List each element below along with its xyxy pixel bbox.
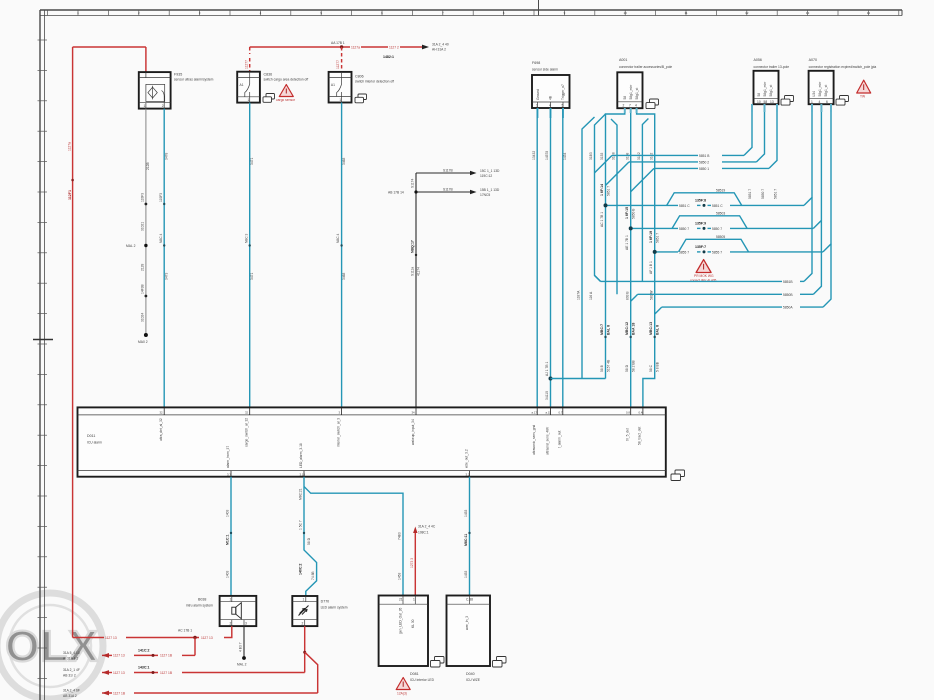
- svg-text:1453: 1453: [464, 509, 468, 517]
- svg-text:AH 31A 2: AH 31A 2: [432, 48, 446, 52]
- svg-text:sensor ultras alarm/system: sensor ultras alarm/system: [174, 78, 214, 82]
- svg-text:3153: 3153: [600, 152, 604, 160]
- warning triangle cargo sensor: [279, 85, 293, 97]
- LED D770 box: [292, 596, 317, 626]
- svg-text:112F1: 112F1: [68, 190, 72, 200]
- svg-text:1482:1: 1482:1: [383, 55, 394, 59]
- node dot J2 left on V630: [629, 226, 633, 230]
- svg-text:1: 1: [413, 598, 415, 602]
- svg-text:17NC5: 17NC5: [480, 193, 490, 197]
- svg-text:trl_5_det: trl_5_det: [626, 428, 630, 441]
- warning triangle near A070: [857, 80, 871, 93]
- svg-text:AC 1 7B 1: AC 1 7B 1: [600, 212, 604, 227]
- horn B038 box: [220, 596, 257, 626]
- connector icon C836: [263, 94, 275, 103]
- svg-text:5855 7: 5855 7: [679, 250, 689, 254]
- svg-text:1: 1: [339, 98, 341, 102]
- svg-text:3: 3: [245, 622, 247, 626]
- svg-text:14F3B: 14F3B: [140, 283, 144, 294]
- svg-text:5850B: 5850B: [783, 293, 793, 297]
- svg-text:2: 2: [623, 103, 625, 107]
- svg-text:3468: 3468: [342, 157, 346, 165]
- wire cyan jumper row J2: [631, 104, 822, 231]
- svg-text:11277: 11277: [244, 60, 248, 69]
- svg-text:BAL 8: BAL 8: [656, 325, 660, 335]
- svg-text:M8C:21: M8C:21: [299, 488, 303, 500]
- connector A056 box: [754, 71, 779, 104]
- svg-text:31A 2_4 6F: 31A 2_4 6F: [63, 689, 80, 693]
- svg-text:0.4: 0.4: [639, 410, 643, 414]
- wire red diagonal branch to row4: [305, 652, 318, 693]
- svg-text:3471: 3471: [250, 272, 254, 280]
- svg-text:MA0 2: MA0 2: [138, 340, 148, 344]
- svg-text:4: 4: [819, 100, 821, 104]
- svg-text:5851 7: 5851 7: [656, 233, 660, 243]
- connector A001 box: [617, 72, 642, 108]
- svg-text:1434: 1434: [563, 152, 567, 160]
- svg-text:ultra_det_al_32: ultra_det_al_32: [159, 418, 163, 441]
- svg-text:74B3: 74B3: [398, 532, 402, 540]
- wire cyan A001 pin4 to V654 and jog to D011 0.4: [637, 108, 655, 415]
- svg-text:1403: 1403: [226, 570, 230, 578]
- svg-text:32: 32: [245, 410, 249, 414]
- svg-text:15C 1_1 13D: 15C 1_1 13D: [480, 169, 500, 173]
- svg-text:10: 10: [624, 11, 628, 15]
- svg-text:ICU WZE: ICU WZE: [466, 678, 481, 682]
- node dot J3 left on V654: [653, 250, 657, 254]
- svg-text:1: 1: [230, 598, 232, 602]
- labels MBC on V605: [604, 336, 606, 338]
- svg-text:MBC:13: MBC:13: [649, 322, 653, 335]
- wire cyan row R161: [606, 104, 765, 185]
- svg-text:TW: TW: [860, 95, 866, 99]
- svg-text:KL 30: KL 30: [411, 619, 415, 628]
- wire cyan F698 pin1 to D011 a.17: [532, 108, 538, 415]
- svg-text:1127 1B: 1127 1B: [160, 654, 173, 658]
- svg-text:S117B: S117B: [443, 169, 453, 173]
- svg-text:1127 2: 1127 2: [389, 45, 399, 49]
- svg-text:B038: B038: [198, 598, 206, 602]
- svg-text:AJ 1 7B 1: AJ 1 7B 1: [545, 362, 549, 376]
- svg-text:PR MOK WG: PR MOK WG: [694, 274, 714, 278]
- node MAL2 on gray wire: [144, 244, 147, 247]
- svg-text:LED alarm system: LED alarm system: [321, 606, 348, 610]
- connector icon A056: [781, 96, 794, 106]
- svg-text:58g1_mirr: 58g1_mirr: [818, 81, 822, 97]
- svg-text:13: 13: [806, 11, 810, 15]
- svg-text:1127 13: 1127 13: [201, 636, 213, 640]
- svg-text:3.18: 3.18: [300, 473, 306, 477]
- D011 bottom pin ticks and numbers: [231, 471, 470, 477]
- svg-text:108C:1: 108C:1: [418, 531, 429, 535]
- svg-text:gen_LED_Out_26: gen_LED_Out_26: [399, 607, 403, 634]
- svg-text:AC 17B 1: AC 17B 1: [178, 629, 192, 633]
- svg-text:MAL 2: MAL 2: [237, 663, 247, 667]
- svg-text:F935: F935: [174, 73, 182, 77]
- svg-text:D040: D040: [466, 672, 475, 676]
- node 110F3 on gray wire: [145, 203, 148, 206]
- svg-text:2: 2: [230, 622, 232, 626]
- wire cyan V617: [611, 119, 617, 294]
- svg-text:34: 34: [412, 410, 416, 414]
- svg-text:S117B: S117B: [443, 188, 453, 192]
- page border left double line: [39, 10, 41, 700]
- ECU D011 box: [78, 407, 666, 476]
- svg-text:BAA 18: BAA 18: [632, 323, 636, 335]
- ICU D040 box: [447, 596, 491, 667]
- wire cyan A001 pin2 main vertical V605: [606, 108, 625, 379]
- svg-text:31024: 31024: [140, 313, 144, 322]
- svg-text:58g1_mirr: 58g1_mirr: [763, 81, 767, 97]
- svg-text:a.15: a.15: [546, 410, 552, 414]
- svg-text:58g1_st: 58g1_st: [769, 85, 773, 97]
- svg-text:switch interior detection off: switch interior detection off: [355, 80, 394, 84]
- svg-text:31A 2_4 40: 31A 2_4 40: [432, 43, 449, 47]
- svg-text:0.7: 0.7: [559, 410, 563, 414]
- svg-text:wze_In_3: wze_In_3: [465, 616, 469, 630]
- watermark OLX: [0, 593, 103, 699]
- svg-text:34110: 34110: [545, 391, 549, 400]
- svg-text:A056: A056: [754, 58, 762, 62]
- svg-text:58 B: 58 B: [600, 364, 604, 372]
- svg-text:connector trailer accessories/: connector trailer accessories/B_pole: [619, 65, 672, 69]
- svg-text:A1: A1: [240, 83, 244, 87]
- wire cyan V594: [595, 114, 606, 281]
- wire cyan jumper row J1: [606, 104, 813, 208]
- svg-text:N8C 3: N8C 3: [244, 233, 248, 243]
- wire black second horizontal to arrow 15B: [416, 191, 470, 193]
- svg-text:C836: C836: [264, 73, 273, 77]
- svg-text:58g1_st: 58g1_st: [635, 88, 639, 100]
- svg-text:135F:7: 135F:7: [695, 245, 706, 249]
- svg-text:5851 B: 5851 B: [699, 154, 710, 158]
- svg-text:interior_switch_al_3: interior_switch_al_3: [336, 418, 340, 447]
- svg-text:N8C 4: N8C 4: [336, 233, 340, 243]
- wire cyan row R168: [631, 104, 777, 192]
- svg-text:AA 17B 1: AA 17B 1: [331, 41, 345, 45]
- svg-text:58 C: 58 C: [649, 364, 653, 372]
- wire red row2 with arrow: [63, 648, 195, 660]
- wire cyan bottom row B281: [595, 197, 813, 284]
- svg-text:1403: 1403: [226, 509, 230, 517]
- wire cyan branch to D081: [304, 487, 403, 597]
- svg-text:58g1_st: 58g1_st: [824, 85, 828, 97]
- svg-text:1 6F:14: 1 6F:14: [600, 184, 604, 196]
- svg-text:Ground: Ground: [536, 89, 540, 100]
- svg-text:5 8 BB: 5 8 BB: [656, 361, 660, 372]
- svg-text:F698: F698: [532, 61, 540, 65]
- wire gray from F935 pin1 to ground MA0: [145, 109, 147, 335]
- svg-text:14: 14: [867, 11, 871, 15]
- node AJ 17B 1 junction on a.15 wire: [549, 377, 553, 381]
- connector A070 box: [809, 71, 834, 104]
- svg-text:1: 1: [144, 104, 146, 108]
- svg-text:7: 7: [629, 103, 631, 107]
- svg-text:143C:1: 143C:1: [138, 665, 150, 669]
- svg-text:C.38: C.38: [466, 598, 473, 602]
- svg-text:1 5C 7: 1 5C 7: [299, 520, 303, 530]
- svg-text:1127a: 1127a: [351, 45, 360, 49]
- svg-text:MBC:12: MBC:12: [625, 322, 629, 335]
- wire cyan bottom row B294: [631, 220, 822, 301]
- svg-text:32: 32: [160, 410, 164, 414]
- svg-text:1: 1: [248, 98, 250, 102]
- svg-text:11: 11: [684, 11, 687, 15]
- svg-text:58503: 58503: [716, 212, 725, 216]
- svg-text:3478: 3478: [165, 152, 169, 160]
- wire cyan C836 to D011 pin 32: [249, 103, 251, 415]
- svg-text:803 B: 803 B: [625, 291, 629, 300]
- svg-text:13432: 13432: [532, 151, 536, 160]
- svg-text:3471: 3471: [250, 157, 254, 165]
- connector icon A001: [646, 99, 659, 109]
- svg-text:cargo_switch_al_32: cargo_switch_al_32: [245, 418, 249, 447]
- svg-text:5850 7: 5850 7: [761, 189, 765, 199]
- wire red row4: [63, 689, 318, 699]
- svg-text:5: 5: [562, 104, 564, 108]
- svg-text:5157 4B: 5157 4B: [607, 359, 611, 372]
- svg-text:58_tract_det: 58_tract_det: [638, 427, 642, 445]
- svg-text:1273 3: 1273 3: [410, 558, 414, 568]
- svg-text:1127 13: 1127 13: [113, 654, 125, 658]
- svg-text:58505: 58505: [716, 235, 725, 239]
- node junction on D770 drop: [303, 651, 306, 654]
- svg-text:1127 13: 1127 13: [105, 636, 117, 640]
- svg-text:A1: A1: [331, 83, 335, 87]
- svg-text:4 B3 7: 4 B3 7: [239, 642, 243, 652]
- svg-text:5850 2: 5850 2: [699, 161, 709, 165]
- svg-text:2: 2: [162, 104, 164, 108]
- ground MA0 2 end dot: [144, 333, 148, 337]
- svg-text:wakeup_input_34: wakeup_input_34: [411, 419, 415, 445]
- ruler ticks: [47, 10, 49, 16]
- svg-text:3468: 3468: [342, 272, 346, 280]
- svg-text:D081: D081: [410, 672, 419, 676]
- svg-text:ICU alarm: ICU alarm: [87, 441, 102, 445]
- wire cyan C806 to D011 pin 3: [341, 103, 343, 415]
- svg-text:6: 6: [826, 100, 828, 104]
- svg-text:alarm_horn_37: alarm_horn_37: [226, 446, 230, 468]
- svg-text:212B: 212B: [146, 161, 150, 170]
- svg-text:14578: 14578: [545, 151, 549, 160]
- svg-text:12A(3): 12A(3): [397, 692, 407, 696]
- svg-text:AE 1 7B 1: AE 1 7B 1: [625, 235, 629, 250]
- svg-text:M1C:1: M1C:1: [226, 534, 230, 545]
- wire red top bus with junction: [250, 46, 350, 48]
- svg-text:5850A: 5850A: [783, 306, 793, 310]
- connector icon A070: [836, 96, 849, 106]
- wire cyan F935 pin2 to D011 pin 32: [163, 109, 165, 415]
- wire black B038 to ground MAL2: [243, 626, 245, 658]
- svg-text:A001: A001: [619, 58, 627, 62]
- svg-text:OLX: OLX: [5, 622, 98, 671]
- svg-text:141C:2: 141C:2: [138, 648, 150, 652]
- svg-text:2128: 2128: [140, 263, 144, 271]
- svg-text:LED_alarm_3.18: LED_alarm_3.18: [299, 443, 303, 468]
- svg-text:1 6F:15: 1 6F:15: [625, 207, 629, 219]
- svg-text:D011: D011: [87, 434, 95, 438]
- wire red bottom bus from left vertical to B038: [73, 637, 104, 639]
- svg-text:1 6F:19: 1 6F:19: [649, 231, 653, 243]
- labels MBC on V654: [654, 336, 656, 338]
- wire cyan V642: [642, 119, 648, 282]
- svg-text:ultrasonic_sens_gnd: ultrasonic_sens_gnd: [532, 425, 536, 455]
- node dot red vertical mid: [71, 179, 74, 182]
- wire red row3 to D770: [63, 665, 305, 677]
- svg-text:5850 7: 5850 7: [712, 227, 722, 231]
- sensor F935 box: [139, 72, 171, 109]
- svg-text:74 8B: 74 8B: [311, 571, 315, 580]
- wire red dashed drop to C836: [249, 47, 251, 54]
- svg-text:2: 2: [302, 622, 304, 626]
- svg-text:116 A: 116 A: [589, 291, 593, 300]
- connector icon D081: [431, 657, 445, 668]
- svg-text:21: 21: [399, 598, 403, 602]
- svg-text:MBC:7: MBC:7: [600, 324, 604, 335]
- svg-text:5851 7: 5851 7: [774, 189, 778, 199]
- node AB 17B 14 junction: [414, 190, 417, 193]
- svg-text:58519: 58519: [716, 189, 725, 193]
- wire cyan jumper row J3: [655, 104, 831, 254]
- wire cyan D011 to B038: [230, 477, 232, 596]
- labels MBC on V630: [630, 336, 632, 338]
- svg-text:M8C:11: M8C:11: [464, 534, 468, 546]
- wire cyan AJ horizontal bus: [551, 378, 606, 380]
- node dot J1 left on V605: [604, 203, 608, 207]
- svg-text:1: 1: [536, 104, 538, 108]
- svg-text:connector registration expired: connector registration expired/switch_po…: [809, 65, 877, 69]
- svg-text:0.8: 0.8: [626, 410, 630, 414]
- D011 top pin ticks and numbers: [164, 407, 643, 415]
- sensor F698 box: [532, 75, 570, 108]
- svg-text:58 D: 58 D: [625, 364, 629, 372]
- wire cyan D011 to D040: [469, 477, 471, 596]
- svg-text:a.17: a.17: [532, 410, 538, 414]
- svg-text:5851 7: 5851 7: [607, 186, 611, 196]
- svg-text:3.2: 3.2: [466, 473, 470, 477]
- svg-text:58 2 BB: 58 2 BB: [632, 359, 636, 372]
- connector icon C806: [355, 94, 367, 103]
- svg-text:AB 31/ 2: AB 31/ 2: [63, 674, 76, 678]
- svg-text:N8C 4: N8C 4: [159, 233, 163, 243]
- ruler tick at x 538: [538, 0, 540, 16]
- svg-text:ICU interior LED: ICU interior LED: [410, 678, 435, 682]
- svg-text:switch cargo area detection of: switch cargo area detection off: [264, 78, 309, 82]
- warning triangle PR MOK: [696, 260, 711, 273]
- svg-text:1453: 1453: [464, 570, 468, 578]
- svg-text:cargo sensor: cargo sensor: [276, 98, 296, 102]
- svg-text:C806: C806: [355, 75, 364, 79]
- connector icon D040: [493, 657, 507, 668]
- wire cyan F698 pin4 to D011 a.15: [545, 108, 550, 415]
- svg-text:intru alarm system: intru alarm system: [186, 604, 213, 608]
- page border top double line: [40, 9, 902, 11]
- svg-text:S111a: S111a: [411, 267, 415, 276]
- svg-text:AB 31A 2: AB 31A 2: [63, 694, 77, 698]
- connector icon D011: [671, 470, 685, 481]
- svg-text:3473: 3473: [165, 272, 169, 280]
- svg-text:1127 13: 1127 13: [113, 671, 125, 675]
- node small on gray wire: [145, 295, 148, 298]
- svg-text:1: 1: [811, 100, 813, 104]
- svg-text:1187A: 1187A: [577, 290, 581, 300]
- svg-text:AF 1 B 1: AF 1 B 1: [649, 261, 653, 274]
- svg-text:MAL 2: MAL 2: [126, 244, 136, 248]
- wire cyan A001 pin7 vertical V630 to D011 0.8: [630, 108, 632, 415]
- warning triangle D081: [396, 678, 410, 690]
- node dot AC17B1: [193, 636, 196, 639]
- svg-text:5850 B: 5850 B: [632, 208, 636, 219]
- svg-text:5851 C: 5851 C: [712, 204, 723, 208]
- svg-text:135F:9: 135F:9: [695, 221, 706, 225]
- wire red long left vertical: [72, 47, 74, 638]
- svg-text:135F:8: 135F:8: [695, 198, 706, 202]
- svg-text:ultrasnd_sens_48V: ultrasnd_sens_48V: [545, 426, 549, 455]
- arrow to 31A 2_4 40: [422, 45, 429, 50]
- wire cyan bottom row B307: [655, 244, 831, 314]
- wire cyan D011 to D770 with jog: [304, 477, 317, 596]
- wire red D770 drop: [304, 626, 306, 672]
- ICU D081 box: [379, 596, 428, 667]
- switch C836 box: [237, 72, 260, 103]
- svg-text:12: 12: [745, 11, 749, 15]
- svg-text:L54: L54: [812, 91, 816, 97]
- svg-text:5851 C: 5851 C: [679, 204, 690, 208]
- svg-text:31A 5_4 10: 31A 5_4 10: [63, 651, 80, 655]
- svg-text:1453: 1453: [398, 572, 402, 580]
- svg-text:3158: 3158: [625, 152, 629, 160]
- svg-text:41174: 41174: [416, 267, 420, 276]
- svg-text:31A 2_4 4C: 31A 2_4 4C: [418, 525, 436, 529]
- switch C806 box: [329, 72, 352, 103]
- wire cyan F698 pin5 to D011 0.7: [563, 108, 567, 415]
- wire black net vertical: [415, 173, 417, 415]
- svg-text:10: 10: [757, 100, 761, 104]
- svg-text:AI 31A 4 2: AI 31A 4 2: [63, 657, 78, 661]
- node AA17B1 junction dot: [340, 45, 343, 48]
- wire red dashed drop to C806: [341, 47, 343, 73]
- wire red arrow up from D081: [414, 533, 416, 596]
- svg-text:4: 4: [635, 103, 637, 107]
- svg-text:3162: 3162: [649, 152, 653, 160]
- svg-text:31021: 31021: [140, 222, 144, 231]
- svg-text:1127 1B: 1127 1B: [113, 691, 126, 695]
- svg-text:119C:12: 119C:12: [480, 174, 492, 178]
- svg-text:1127 1B: 1127 1B: [160, 671, 173, 675]
- svg-text:5851 7: 5851 7: [748, 189, 752, 199]
- svg-text:11277: 11277: [336, 60, 340, 69]
- D011 pin name labels rotated: [159, 418, 642, 468]
- svg-text:31A 2_1 4F: 31A 2_1 4F: [63, 668, 80, 672]
- svg-text:110F3: 110F3: [140, 193, 144, 202]
- svg-text:140C:2: 140C:2: [299, 563, 303, 575]
- wire cyan row R155: [595, 104, 753, 173]
- svg-text:58 D: 58 D: [307, 537, 311, 545]
- svg-text:110F3: 110F3: [159, 193, 163, 202]
- wire cyan V582: [582, 117, 595, 379]
- svg-text:13: 13: [770, 100, 774, 104]
- svg-text:t_alarm_out: t_alarm_out: [558, 431, 562, 449]
- svg-text:4: 4: [549, 104, 551, 108]
- svg-text:1127a: 1127a: [68, 142, 72, 151]
- wire red feed top-left horizontal: [73, 46, 146, 48]
- svg-text:58: 58: [623, 96, 627, 100]
- wire red vertical drop to F935: [145, 47, 147, 73]
- svg-text:BAL 8: BAL 8: [607, 325, 611, 335]
- svg-text:58: 58: [764, 100, 768, 104]
- wire red drop to row2: [194, 638, 196, 656]
- svg-text:S1174: S1174: [411, 179, 415, 188]
